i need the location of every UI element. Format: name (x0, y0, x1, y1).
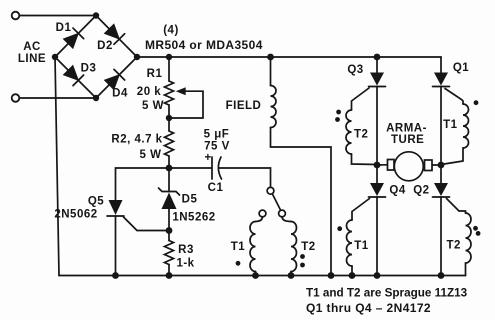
node armature right (438, 162, 445, 169)
svg-text:LINE: LINE (18, 53, 46, 65)
node T1 lower bottom (349, 272, 356, 279)
wire (432, 164, 441, 166)
node T2 primary bottom (288, 272, 295, 279)
node armature left (374, 162, 381, 169)
node R3 bottom (166, 272, 173, 279)
phasing dots T2 (300, 254, 305, 259)
diode D3 (63, 65, 84, 86)
node T1 primary bottom (252, 272, 259, 279)
wire (168, 118, 170, 131)
wire (255, 272, 257, 276)
wire (351, 266, 353, 276)
wire Q2 gate (447, 199, 466, 214)
wire right rail corner (440, 57, 442, 73)
svg-text:Q1: Q1 (453, 62, 469, 74)
wire left vertical from bridge to bottom rail (55, 57, 59, 276)
wire (168, 168, 170, 192)
svg-text:Q5: Q5 (88, 195, 104, 207)
svg-text:5 W: 5 W (142, 100, 164, 112)
transformer T1 lower coil (347, 220, 353, 266)
svg-text:(4): (4) (163, 25, 179, 37)
wire (441, 148, 463, 165)
wire (168, 105, 170, 118)
node field return bottom (328, 272, 335, 279)
wire (168, 209, 170, 231)
wire bridge edge top-right (96, 16, 137, 58)
zener diode D5 (159, 188, 180, 195)
terminal AC top (12, 12, 20, 20)
svg-text:Q4: Q4 (389, 185, 405, 197)
svg-text:TURE: TURE (391, 134, 424, 146)
node bridge top (93, 12, 99, 18)
svg-text:2N5062: 2N5062 (54, 209, 97, 221)
wire (116, 168, 170, 200)
wire bridge edge left-top (55, 16, 96, 58)
wire Q4 cathode (376, 197, 378, 276)
resistor R3 (165, 241, 174, 265)
wire (169, 167, 212, 169)
phasing dots T2 lower (473, 226, 478, 231)
switch pole (267, 187, 274, 194)
svg-text:T2: T2 (354, 129, 368, 141)
transformer T2 primary coil (282, 217, 291, 222)
node R2 bottom (166, 165, 173, 172)
wire (168, 156, 170, 168)
svg-text:5 W: 5 W (140, 149, 162, 161)
thyristor Q3 (376, 57, 378, 73)
wire (352, 154, 378, 165)
switch contact left (259, 210, 266, 217)
thyristor Q2 (440, 165, 442, 183)
svg-text:T1: T1 (231, 241, 246, 253)
diode D2 (104, 24, 125, 45)
phasing dot T1 (236, 261, 241, 266)
wire (220, 168, 271, 187)
resistor R1 (165, 81, 174, 105)
terminal AC bottom (12, 94, 20, 102)
wire (20, 15, 97, 17)
wire Q2 cathode (440, 197, 442, 276)
transformer T1 primary coil (256, 217, 263, 222)
phasing dots T2 upper (336, 110, 341, 115)
node Q2 bottom (438, 272, 445, 279)
svg-text:T1: T1 (443, 119, 458, 131)
thyristor Q5 (109, 200, 123, 215)
inductor FIELD (271, 86, 277, 128)
svg-text:D4: D4 (112, 88, 128, 100)
capacitor C1 (212, 157, 222, 179)
wire Q3 gate (352, 88, 370, 110)
svg-text:T1: T1 (354, 240, 369, 252)
node D5/R3/gate (166, 227, 173, 234)
svg-text:5 μF: 5 μF (204, 129, 230, 141)
svg-text:20 k: 20 k (137, 86, 161, 98)
wire Q1 cathode down (440, 87, 442, 166)
diode D4 (104, 69, 125, 90)
svg-text:Q3: Q3 (347, 64, 363, 76)
wire bottom rail (59, 275, 466, 277)
thyristor Q4 (376, 165, 378, 183)
wire Q5 gate (124, 217, 170, 231)
wire (168, 265, 170, 276)
svg-text:AC: AC (23, 41, 41, 53)
svg-text:+: + (205, 152, 212, 164)
svg-text:R3: R3 (178, 244, 194, 256)
svg-text:FIELD: FIELD (226, 100, 262, 112)
node bridge left (52, 54, 58, 60)
label AC LINE (18, 41, 46, 65)
svg-text:R2, 4.7 k: R2, 4.7 k (111, 134, 162, 146)
node bridge bottom (93, 95, 99, 101)
wire (290, 272, 292, 276)
transformer T1 upper coil (463, 104, 469, 148)
wire (20, 97, 97, 99)
node Q5 bottom (112, 272, 119, 279)
wire field return (271, 128, 332, 276)
wire Q3 cathode down (376, 87, 378, 166)
thyristor Q1 (434, 73, 448, 86)
svg-text:MR504 or MDA3504: MR504 or MDA3504 (145, 38, 263, 52)
wire bridge edge left-bottom (55, 57, 96, 98)
transformer T2 lower coil (466, 213, 472, 263)
svg-text:Q2: Q2 (413, 185, 429, 197)
svg-text:T2: T2 (446, 239, 460, 251)
svg-text:D2: D2 (97, 40, 113, 52)
phasing dot T1 upper (474, 100, 479, 105)
resistor R2 (165, 131, 174, 156)
node R1 bottom (166, 115, 172, 121)
wire Q4 gate (352, 199, 370, 221)
potentiometer wiper arrow of R1 (176, 87, 186, 95)
node field top (267, 54, 274, 61)
svg-text:T2: T2 (301, 241, 315, 253)
svg-text:1-k: 1-k (176, 258, 194, 270)
wire Q1 gate (445, 89, 463, 105)
switch contact right (279, 210, 286, 217)
switch blade (272, 194, 280, 210)
wire (377, 164, 388, 166)
wire Q5 cathode (115, 216, 117, 276)
svg-text:1N5262: 1N5262 (172, 212, 215, 224)
wire wiper loop (169, 91, 203, 118)
wire (168, 57, 170, 81)
svg-text:D3: D3 (81, 63, 97, 75)
svg-text:75 V: 75 V (204, 141, 230, 153)
diode D1 (63, 28, 84, 49)
phasing dot T1 lower (337, 226, 342, 231)
node Q4 bottom (374, 272, 381, 279)
svg-text:D1: D1 (56, 22, 72, 34)
node R1 top (166, 54, 172, 60)
wire (168, 231, 170, 241)
wire (270, 57, 272, 86)
node top rail Q3 (374, 54, 381, 61)
label (4) MR504 or MDA3504 (145, 25, 263, 53)
wire (465, 263, 467, 276)
node bridge right (134, 54, 140, 60)
note transformers (306, 287, 468, 316)
svg-text:D5: D5 (182, 194, 198, 206)
svg-text:Q1 thru Q4 – 2N4172: Q1 thru Q4 – 2N4172 (306, 301, 431, 315)
motor ARMATURE (394, 152, 423, 181)
transformer T2 upper coil (346, 110, 352, 154)
svg-text:T1 and T2 are Sprague 11Z13: T1 and T2 are Sprague 11Z13 (306, 287, 468, 300)
svg-text:C1: C1 (208, 182, 224, 194)
wire bridge edge bottom-right (96, 57, 137, 98)
svg-text:R1: R1 (147, 68, 163, 80)
wire top DC rail (137, 56, 441, 58)
